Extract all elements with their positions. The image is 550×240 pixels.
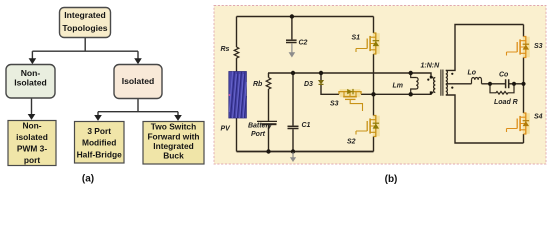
transistor S3 (right) [507, 37, 530, 58]
svg-text:Lm: Lm [393, 82, 404, 89]
box 3 Port Modified Half-Bridge [75, 122, 125, 164]
resistor Load R loop [490, 84, 514, 94]
svg-text:Port: Port [251, 131, 266, 138]
svg-text:Isolated: Isolated [122, 76, 154, 86]
svg-text:Half-Bridge: Half-Bridge [77, 149, 122, 159]
capacitor C1 plates [288, 125, 299, 127]
connector Isolated to split 2 [137, 99, 139, 112]
wire below Rs through PV [236, 58, 238, 151]
wire S1/S2 vertical top rail to S1 [373, 17, 375, 34]
wire secondary bottom stub [446, 95, 524, 143]
svg-text:(a): (a) [82, 174, 94, 185]
capacitor C2 plates [286, 39, 297, 41]
ground arrow below bottom rail [290, 152, 296, 162]
polarity dot primary [427, 79, 429, 81]
wire rail A [268, 73, 433, 78]
svg-text:C2: C2 [299, 40, 308, 47]
transistor S4 [507, 113, 530, 134]
svg-text:Rb: Rb [253, 81, 263, 88]
svg-text:D3: D3 [304, 81, 313, 88]
svg-text:C1: C1 [302, 122, 311, 129]
transformer secondary winding [446, 70, 448, 95]
inductor Lm [411, 73, 417, 94]
PV panel [229, 72, 247, 119]
svg-text:Forward with: Forward with [147, 131, 199, 141]
svg-text:3 Port: 3 Port [87, 126, 111, 136]
panel background [214, 6, 546, 165]
svg-text:PWM 3-: PWM 3- [17, 144, 47, 154]
transformer primary winding [434, 78, 436, 93]
svg-text:Integrated: Integrated [64, 10, 106, 20]
inductor Lo [472, 80, 482, 84]
diode D3 [319, 80, 324, 84]
arrow to box5 [177, 112, 179, 116]
polarity dot secondary bottom [451, 87, 453, 89]
svg-text:Modified: Modified [82, 138, 116, 148]
battery Battery Port [257, 120, 277, 122]
box Two Switch Forward with Integrated Buck [143, 122, 204, 165]
svg-text:Rs: Rs [221, 46, 230, 53]
wire Rb to battery [268, 89, 270, 121]
wire battery branch upper [268, 73, 270, 78]
arrow to Isolated [137, 51, 139, 59]
svg-text:Buck: Buck [163, 151, 184, 161]
svg-text:Lo: Lo [468, 70, 477, 77]
svg-text:Battery: Battery [248, 123, 273, 130]
svg-text:S3: S3 [534, 43, 543, 50]
arrow Non-Isolated to box3 [31, 98, 33, 115]
svg-text:Load R: Load R [494, 99, 518, 106]
svg-text:port: port [24, 155, 40, 165]
connector box1 to split [84, 38, 86, 52]
capacitor C1 branch wire [292, 73, 294, 152]
svg-text:S1: S1 [352, 35, 361, 42]
polarity dot secondary top [451, 73, 453, 75]
transistor S1 [356, 33, 380, 54]
wire top rail [237, 16, 374, 18]
terminal squares primary [430, 76, 433, 94]
wire right rail S3 source to node [523, 58, 525, 114]
capacitor C2 branch wire [291, 17, 293, 40]
box Isolated [114, 65, 162, 99]
resistor Rb [266, 78, 271, 90]
wire bottom rail [237, 151, 374, 153]
svg-text:Integrated: Integrated [153, 141, 194, 151]
svg-text:Co: Co [499, 72, 509, 79]
wire center tap to Lo [446, 83, 472, 85]
svg-text:1:N:N: 1:N:N [421, 63, 441, 70]
svg-text:S3: S3 [330, 101, 339, 108]
transformer core [441, 70, 443, 96]
wire S1 to rail B [373, 54, 375, 116]
svg-text:Two Switch: Two Switch [151, 122, 196, 132]
svg-text:Non-: Non- [22, 120, 41, 130]
box Non-isolated PWM 3-port [8, 121, 56, 166]
transistor S3 horizontal (middle) [339, 89, 363, 111]
split line level 1 [32, 50, 138, 52]
wire rail B left of S3 [321, 85, 339, 95]
box Non-Isolated [6, 65, 55, 99]
svg-text:(b): (b) [385, 174, 398, 185]
arrow to Non-Isolated [31, 51, 33, 59]
circuit labels [221, 35, 543, 146]
wire Lo to Co [482, 83, 506, 85]
svg-text:S2: S2 [347, 139, 356, 146]
capacitor Co plates [506, 79, 509, 88]
wire secondary top stub [446, 25, 524, 71]
wire right rail S3 drain [523, 25, 525, 37]
wire Co to rail [509, 83, 524, 85]
diode D3 branch wire [320, 73, 322, 80]
ground arrow below C2 [289, 44, 296, 58]
transistor S2 [356, 116, 380, 137]
svg-text:PV: PV [221, 126, 232, 133]
wire rail B right of S3 [361, 93, 433, 95]
resistor Rs [234, 47, 239, 58]
wire left vertical (PV branch) [236, 17, 238, 48]
box Integrated Topologies [60, 8, 111, 38]
wire S2 to bottom rail [373, 137, 375, 152]
svg-text:Non-: Non- [21, 68, 41, 78]
wire right rail S4 source [523, 134, 525, 143]
svg-text:isolated: isolated [16, 132, 48, 142]
wire battery to bottom rail [268, 125, 270, 152]
svg-text:Isolated: Isolated [14, 78, 46, 88]
arrow to box4 [97, 112, 99, 116]
svg-text:Topologies: Topologies [62, 23, 107, 33]
svg-text:S4: S4 [534, 114, 543, 121]
